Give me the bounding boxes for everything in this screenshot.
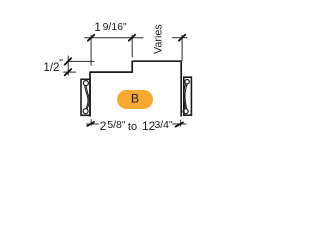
svg-text:": " — [59, 57, 63, 69]
tick top left — [88, 35, 94, 41]
svg-text:2: 2 — [100, 119, 107, 133]
tick bottom right — [176, 122, 183, 126]
top dim line right segment (Varies) — [172, 37, 188, 39]
dim text 2 5/8" to 12 3/4" — [100, 119, 173, 133]
top dim line left segment (1 9/16) — [85, 37, 144, 39]
bottom dim line right segment — [172, 123, 186, 125]
left shim top circle — [83, 81, 88, 86]
dimension lines — [63, 35, 187, 127]
bottom right extension stub — [180, 120, 182, 127]
svg-text:3/4": 3/4" — [155, 120, 173, 131]
svg-text:1/2: 1/2 — [43, 61, 59, 74]
label B pill — [117, 90, 153, 109]
tick half upper — [65, 58, 72, 64]
right wood shim symbol: rectangle — [183, 77, 191, 115]
svg-text:5/8": 5/8" — [107, 120, 125, 131]
tick top right — [179, 35, 185, 41]
tick bottom left — [87, 122, 94, 126]
right shim bottom circle — [183, 109, 188, 114]
extension line right — [181, 35, 183, 61]
svg-text:to: to — [128, 121, 137, 133]
right shim curves — [184, 84, 186, 109]
dim text 1 9/16" — [94, 20, 127, 34]
svg-text:9/16": 9/16" — [103, 21, 127, 33]
bottom left extension stub — [90, 119, 92, 126]
left shim curves — [85, 86, 88, 109]
svg-text:B: B — [131, 92, 139, 106]
extension line left — [90, 35, 92, 66]
left shim bottom circle — [83, 109, 88, 114]
svg-text:Varies: Varies — [152, 24, 164, 54]
bottom dim line left segment — [86, 123, 99, 125]
tick half lower — [65, 69, 72, 75]
dim text 1/2" — [43, 57, 63, 74]
extension line middle (step) — [131, 35, 133, 57]
tick top middle — [129, 35, 135, 41]
frame profile outline — [90, 61, 181, 115]
left wood shim symbol: rectangle — [81, 79, 90, 115]
dimension tick marks — [65, 35, 186, 127]
right shim top circle — [185, 80, 189, 84]
1/2 upper extension — [67, 60, 95, 62]
1/2 dim vertical line — [67, 56, 69, 76]
svg-text:1: 1 — [94, 20, 101, 34]
1/2 lower extension — [63, 71, 76, 73]
